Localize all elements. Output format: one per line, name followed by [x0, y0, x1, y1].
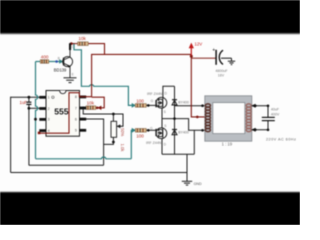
- label D Q1: [165, 92, 168, 96]
- node pin4 blob: [38, 132, 41, 135]
- capacitor C1 1uF: [26, 102, 31, 104]
- wire teal bottom run with hop: [36, 157, 132, 159]
- arrow teal base: [59, 59, 63, 63]
- transistor Q3 collector stub: [67, 43, 71, 68]
- IC 555 pin stubs left: [39, 96, 46, 132]
- label 100 Q2: [136, 133, 144, 138]
- ground BD139 emitter: [64, 78, 77, 83]
- pin1 circle mark: [52, 96, 54, 98]
- ground C2: [228, 58, 235, 64]
- label 555: [54, 107, 69, 117]
- label E pin: [72, 72, 75, 76]
- label pot percent: [120, 128, 125, 137]
- svg-text:8: 8: [75, 95, 77, 99]
- potentiometer RV1: [111, 121, 121, 137]
- label plus: [212, 47, 215, 53]
- label 400: [41, 54, 49, 59]
- svg-text:100: 100: [136, 99, 144, 104]
- svg-text:100: 100: [136, 133, 144, 138]
- wire teal pin3 vertical: [36, 62, 41, 159]
- junction primary top lead: [201, 104, 204, 107]
- diode D2 BY400: [172, 130, 177, 135]
- junction diode column midpoint: [173, 117, 176, 120]
- junction pot top: [112, 113, 115, 116]
- junction Q1 gate: [147, 104, 150, 107]
- wire left ground riser: [10, 97, 12, 173]
- junction C3 bottom: [267, 129, 270, 132]
- junction C3 top: [267, 105, 270, 108]
- power 12V arrow: [189, 43, 194, 56]
- svg-text:555: 555: [54, 107, 69, 117]
- wire maroon 555 loop pin4-pin8: [39, 93, 91, 134]
- wire maroon 12V drop to transformer: [191, 54, 207, 117]
- transformer secondary winding: [246, 104, 251, 132]
- svg-text:400V: 400V: [271, 112, 280, 116]
- arrow maroon pin7: [97, 106, 101, 110]
- svg-text:220V AC 60Hz: 220V AC 60Hz: [266, 138, 296, 142]
- arrow teal Q2 gate: [132, 128, 136, 133]
- node dot pin3 teal: [34, 118, 37, 121]
- svg-text:IRF Z44N: IRF Z44N: [147, 92, 163, 96]
- label 220V AC 60Hz: [266, 138, 296, 142]
- transformer TR1 core: [205, 96, 252, 141]
- node secondary top terminal: [254, 105, 256, 107]
- junction primary bottom lead: [201, 129, 204, 132]
- wire secondary top: [252, 106, 269, 117]
- svg-text:12V: 12V: [194, 42, 202, 47]
- label IRFZ44N Q2: [146, 141, 162, 145]
- capacitor C3 output: [262, 117, 275, 120]
- junction Q2 gate: [147, 129, 150, 132]
- IC U1 555 body: [46, 91, 80, 137]
- transformer primary winding: [205, 104, 210, 132]
- label GND: [194, 182, 202, 186]
- junction pin7-R2: [82, 107, 85, 110]
- wire ground riser: [186, 154, 188, 181]
- arrow teal Q1 gate: [132, 103, 136, 108]
- svg-text:BY400: BY400: [178, 101, 189, 105]
- label 100 Q1: [136, 99, 144, 104]
- junction pin2-C1: [28, 107, 31, 110]
- junction collector-R1: [70, 42, 73, 45]
- wire pin2 rail: [29, 107, 40, 109]
- label 16V: [218, 73, 225, 77]
- label C pin: [72, 45, 75, 49]
- label S Q2: [164, 124, 167, 128]
- junction pin1-C1: [28, 96, 31, 99]
- mosfet Q1 IRFZ44N: [156, 97, 167, 108]
- svg-text:5: 5: [75, 129, 77, 133]
- wire pin7 drop to pot top: [83, 109, 123, 127]
- svg-text:1.0k: 1.0k: [120, 144, 125, 153]
- mosfet Q1 body arrow: [159, 99, 163, 106]
- svg-text:7: 7: [75, 106, 77, 110]
- label BD139: [54, 67, 67, 72]
- svg-text:GND: GND: [194, 182, 202, 186]
- ground main: [182, 181, 192, 185]
- svg-text:1 : 19: 1 : 19: [222, 142, 233, 147]
- label BY400 D1: [178, 101, 189, 105]
- mosfet Q2 body arrow: [159, 130, 163, 137]
- svg-text:10k: 10k: [87, 100, 95, 105]
- svg-text:1: 1: [48, 96, 50, 100]
- resistor R 10k top: [71, 42, 88, 46]
- label 40uF: [271, 107, 280, 111]
- wire maroon top rail: [88, 44, 191, 97]
- svg-text:10k: 10k: [78, 36, 86, 41]
- wire teal collector zigzag to Q1 gate: [71, 44, 132, 106]
- pin numbers right: [75, 95, 77, 132]
- junction R2-feedback: [96, 107, 99, 110]
- svg-text:40uF: 40uF: [271, 107, 280, 111]
- label D Q2: [164, 142, 167, 146]
- resistor 100 Q2 gate: [135, 129, 146, 133]
- transistor Q3 BD139: [63, 50, 73, 78]
- wire teal base segment: [49, 61, 60, 63]
- svg-text:2: 2: [48, 107, 50, 111]
- label 1 : 19: [222, 142, 233, 147]
- svg-text:4: 4: [48, 129, 50, 133]
- wire Q2 gate: [146, 129, 156, 131]
- wire teal to Q2 gate: [130, 130, 133, 159]
- svg-text:IRF Z44N: IRF Z44N: [146, 141, 162, 145]
- label IRFZ44N Q1: [147, 92, 163, 96]
- label 400V: [271, 112, 280, 116]
- IC 555 pin stubs right: [80, 96, 87, 132]
- svg-text:3: 3: [48, 118, 50, 122]
- svg-text:+: +: [212, 47, 215, 53]
- wire transformer bottom to rail: [193, 130, 195, 154]
- svg-text:16V: 16V: [218, 73, 225, 77]
- svg-text:G: G: [151, 99, 154, 103]
- wire maroon pin7 feedback loop: [92, 97, 105, 108]
- capacitor C2 4800uF: [216, 50, 231, 65]
- wire Q1 drain to top rail: [163, 86, 175, 97]
- arrow secondary bottom: [251, 128, 255, 132]
- wire bottom ground run: [11, 172, 187, 174]
- label S Q1: [164, 110, 167, 114]
- black bar top: [0, 0, 300, 35]
- label BY400 D2: [178, 131, 189, 135]
- label 12V: [194, 42, 202, 47]
- wire transformer top lead: [175, 105, 208, 107]
- wire source rail: [162, 139, 194, 155]
- wire pot bottom arm: [104, 137, 114, 144]
- wire maroon cap feed: [191, 57, 216, 59]
- label G Q2: [150, 127, 153, 131]
- resistor 100 Q1 gate: [135, 104, 146, 108]
- svg-text:50%: 50%: [120, 128, 125, 137]
- junction center tap lead: [196, 116, 199, 119]
- label 10k top: [78, 36, 86, 41]
- svg-text:1uF: 1uF: [20, 100, 28, 105]
- svg-text:BY400: BY400: [178, 131, 189, 135]
- wire secondary bottom: [252, 121, 269, 130]
- diode D1 BY400: [172, 100, 177, 105]
- black bar bottom: [0, 191, 300, 225]
- label 1uF: [20, 100, 28, 105]
- arrow secondary top: [251, 104, 255, 108]
- svg-text:400: 400: [41, 54, 49, 59]
- svg-text:6: 6: [75, 117, 77, 121]
- junction pot bottom: [112, 141, 115, 144]
- resistor 10k pin7: [85, 106, 96, 110]
- wire pin6 jog: [80, 119, 104, 165]
- mosfet Q2 IRFZ44N: [156, 128, 167, 139]
- wire pin1 rail: [11, 96, 40, 98]
- label 10k pin7: [87, 100, 95, 105]
- wire capacitor C1 column: [29, 97, 104, 165]
- wire Q1 gate: [146, 104, 156, 106]
- node secondary bottom terminal: [254, 129, 256, 131]
- svg-text:BD139: BD139: [54, 67, 67, 72]
- label G Q1: [151, 99, 154, 103]
- label pot value: [120, 144, 125, 153]
- wire diode column: [174, 86, 176, 154]
- node dot base junction: [55, 60, 58, 63]
- node 12V supply: [190, 55, 193, 58]
- wire midpoint node: [162, 108, 207, 130]
- label B pin: [58, 56, 61, 60]
- label 4800uF: [215, 69, 228, 73]
- resistor base 400: [40, 60, 48, 64]
- pin numbers left: [48, 96, 50, 133]
- svg-text:G: G: [150, 127, 153, 131]
